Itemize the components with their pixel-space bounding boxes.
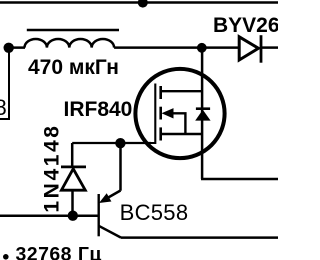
svg-text:IRF840: IRF840 bbox=[64, 98, 133, 121]
node junction at MOSFET drain bbox=[197, 43, 207, 53]
svg-text:1N4148: 1N4148 bbox=[40, 123, 63, 212]
IC box right edge with pin 8 bbox=[8, 48, 10, 119]
diode D1 cathode bar bbox=[61, 166, 86, 169]
transistor Q3 base bar bbox=[97, 194, 99, 236]
MOSFET gate plate bbox=[137, 84, 155, 144]
transistor Q2 MOSFET body circle bbox=[135, 69, 224, 158]
wire main horizontal net left segment bbox=[9, 46, 25, 49]
MOSFET channel dash middle bbox=[159, 107, 162, 120]
svg-text:32768 Гц: 32768 Гц bbox=[16, 243, 102, 260]
node junction on gate net bbox=[115, 138, 125, 148]
wire gate net horizontal bbox=[72, 142, 151, 144]
node junction on top rail bbox=[138, 0, 148, 8]
diode D1 1N4148 anode lead bbox=[71, 143, 74, 166]
inductor L1 coil humps bbox=[25, 39, 115, 48]
wire top supply rail bbox=[0, 1, 278, 4]
inductor L1 core bar bbox=[27, 29, 119, 32]
node junction on base wire bbox=[68, 211, 78, 221]
MOSFET drain connection bbox=[161, 90, 202, 92]
diode D2 BYV26 triangle bbox=[239, 37, 258, 60]
wire main horizontal net middle segment bbox=[114, 46, 239, 49]
MOSFET body diode triangle bbox=[195, 110, 210, 121]
MOSFET bulk arrow line bbox=[170, 113, 185, 134]
MOSFET source connection bbox=[161, 133, 202, 135]
transistor Q3 collector diagonal bbox=[99, 226, 121, 238]
wire after BYV26 to right edge bbox=[262, 46, 278, 49]
diode D1 lower lead bbox=[71, 190, 74, 216]
wire from gate net down to Q3 emitter bbox=[119, 143, 122, 191]
label leading dot of cropped text bbox=[3, 254, 9, 260]
wire source output to right edge bbox=[201, 178, 278, 181]
MOSFET bulk arrowhead bbox=[162, 108, 174, 118]
svg-text:470 мкГн: 470 мкГн bbox=[28, 56, 119, 79]
svg-text:BYV26: BYV26 bbox=[213, 14, 278, 37]
MOSFET channel dash bottom bbox=[159, 127, 162, 140]
transistor Q3 emitter arrowhead bbox=[99, 193, 111, 203]
transistor Q3 emitter diagonal bbox=[103, 191, 121, 201]
diode D1 triangle bbox=[61, 169, 85, 190]
MOSFET channel dash top bbox=[159, 86, 162, 99]
MOSFET body diode cathode bar bbox=[196, 107, 210, 110]
wire MOSFET drain-source vertical bbox=[201, 48, 204, 179]
svg-text:8: 8 bbox=[0, 95, 7, 120]
wire collector net to right edge bbox=[121, 236, 278, 239]
svg-text:BC558: BC558 bbox=[120, 200, 189, 225]
wire base net bbox=[0, 214, 99, 217]
node junction at inductor input bbox=[4, 43, 14, 53]
diode D2 BYV26 cathode bar bbox=[260, 35, 263, 63]
